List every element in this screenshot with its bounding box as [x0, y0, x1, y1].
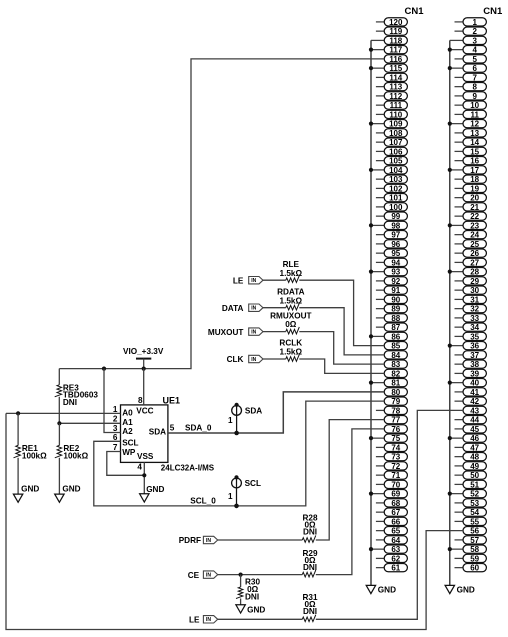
node CN1 pin 22	[455, 212, 487, 221]
node CN1 pin 84	[384, 351, 407, 360]
op-amp UE1 body (EEPROM 24LC32A)	[121, 405, 168, 463]
wire A1 pin 2	[59, 422, 120, 424]
svg-text:IN: IN	[206, 617, 211, 623]
node CN1 pin 115	[369, 64, 408, 73]
svg-text:LE: LE	[233, 276, 244, 285]
node CN1 pin 71	[376, 471, 408, 480]
junction WP/VSS	[142, 473, 146, 477]
svg-text:116: 116	[389, 55, 402, 64]
svg-text:100kΩ: 100kΩ	[63, 452, 88, 461]
svg-text:55: 55	[470, 517, 479, 526]
node CN1 pin 99	[376, 212, 408, 221]
svg-text:106: 106	[389, 147, 403, 156]
node CN1 pin 11	[455, 110, 487, 119]
svg-text:21: 21	[470, 203, 479, 212]
svg-text:51: 51	[470, 480, 479, 489]
svg-text:64: 64	[391, 536, 400, 545]
node CN1 pin 72	[376, 462, 408, 471]
node CN1 pin 41	[455, 388, 487, 397]
svg-text:A2: A2	[122, 427, 133, 436]
svg-text:45: 45	[470, 425, 479, 434]
svg-text:63: 63	[391, 545, 400, 554]
node CN1 pin 35	[455, 332, 487, 341]
node CN1 pin 61	[376, 564, 408, 573]
node CN1 pin 2	[455, 27, 487, 36]
svg-text:44: 44	[470, 416, 479, 425]
svg-text:DNI: DNI	[245, 592, 259, 601]
svg-text:12: 12	[470, 120, 479, 129]
svg-text:SDA_0: SDA_0	[185, 423, 212, 432]
svg-text:CN1: CN1	[405, 6, 425, 17]
svg-text:96: 96	[391, 240, 400, 249]
svg-text:33: 33	[470, 314, 479, 323]
ground symbol UE1 VSS	[140, 485, 165, 502]
svg-text:18: 18	[470, 175, 479, 184]
svg-text:24: 24	[470, 231, 479, 240]
svg-text:7: 7	[113, 443, 118, 452]
node CN1 pin 34	[455, 323, 487, 332]
svg-text:39: 39	[470, 369, 479, 378]
svg-text:DNI: DNI	[303, 563, 317, 572]
wire CN1-right ground bus	[449, 40, 451, 585]
svg-text:CLK: CLK	[227, 355, 244, 364]
svg-text:53: 53	[470, 499, 479, 508]
svg-text:1: 1	[472, 18, 477, 27]
svg-text:CN1: CN1	[483, 6, 503, 17]
node CN1 pin 55	[455, 517, 487, 526]
svg-text:56: 56	[470, 527, 479, 536]
svg-text:20: 20	[470, 194, 479, 203]
node CN1 pin 92	[376, 277, 408, 286]
svg-text:31: 31	[470, 295, 479, 304]
node CN1 pin 77	[384, 416, 407, 425]
svg-text:RDATA: RDATA	[277, 287, 305, 296]
node CN1 pin 5	[455, 55, 487, 64]
svg-text:46: 46	[470, 434, 479, 443]
wire VSS pin 4 to ground	[143, 462, 145, 493]
node CN1 pin 82	[384, 369, 407, 378]
svg-text:28: 28	[470, 268, 479, 277]
node CN1 pin 14	[455, 138, 487, 147]
resistor RCLK	[263, 354, 384, 373]
svg-text:10: 10	[470, 101, 479, 110]
svg-text:IN: IN	[206, 572, 211, 578]
wire A2 pin 3 to VIO	[104, 369, 121, 433]
svg-text:A1: A1	[122, 418, 133, 427]
svg-text:37: 37	[470, 351, 479, 360]
svg-text:8: 8	[472, 83, 477, 92]
node CN1 pin 70	[376, 480, 408, 489]
svg-text:7: 7	[472, 73, 477, 82]
node CN1 pin 101	[376, 194, 408, 203]
svg-text:1: 1	[228, 416, 233, 425]
svg-text:13: 13	[470, 129, 479, 138]
node CN1 pin 120	[376, 18, 408, 27]
svg-text:92: 92	[391, 277, 400, 286]
node CN1 pin 105	[376, 157, 408, 166]
node CN1 pin 76	[384, 425, 407, 434]
svg-text:93: 93	[391, 268, 400, 277]
svg-text:112: 112	[389, 92, 402, 101]
svg-text:DNI: DNI	[303, 527, 317, 536]
node CN1 pin 58	[448, 545, 487, 554]
node CN1 pin 8	[455, 83, 487, 92]
node CN1 pin 102	[376, 184, 408, 193]
svg-text:89: 89	[391, 305, 400, 314]
node CN1 pin 28	[448, 268, 487, 277]
node CN1 pin 65	[376, 527, 408, 536]
node CN1 pin 78	[376, 406, 408, 415]
svg-text:95: 95	[391, 249, 400, 258]
ground symbol below CN1 left column	[366, 585, 396, 594]
node CN1 pin 47	[455, 443, 487, 452]
svg-text:VIO_+3.3V: VIO_+3.3V	[123, 347, 164, 356]
node CN1 pin 96	[376, 240, 408, 249]
svg-text:1.5kΩ: 1.5kΩ	[280, 296, 303, 305]
svg-text:91: 91	[391, 286, 400, 295]
svg-text:4: 4	[472, 46, 477, 55]
svg-text:38: 38	[470, 360, 479, 369]
node CN1 pin 98	[369, 221, 408, 230]
node CN1 pin 94	[376, 258, 408, 267]
svg-text:99: 99	[391, 212, 400, 221]
node CN1 pin 117	[369, 46, 408, 55]
node CN1 pin 48	[455, 453, 487, 462]
svg-text:102: 102	[389, 184, 403, 193]
svg-text:58: 58	[470, 545, 479, 554]
svg-text:GND: GND	[457, 586, 475, 595]
node CN1 pin 59	[455, 554, 487, 563]
svg-text:74: 74	[391, 443, 400, 452]
svg-text:43: 43	[470, 406, 479, 415]
node CN1 pin 111	[376, 101, 408, 110]
svg-text:IN: IN	[251, 278, 256, 284]
node CN1 pin 88	[376, 314, 408, 323]
svg-text:25: 25	[470, 240, 479, 249]
svg-text:14: 14	[470, 138, 479, 147]
svg-text:62: 62	[391, 554, 400, 563]
node CN1 pin 6	[448, 64, 487, 73]
svg-text:47: 47	[470, 443, 479, 452]
ground symbol R30	[236, 605, 265, 615]
svg-text:5: 5	[472, 55, 477, 64]
node CN1 pin 32	[455, 305, 487, 314]
junction A0 / RE1	[16, 411, 20, 415]
svg-text:110: 110	[389, 110, 402, 119]
node CN1 pin 4	[448, 46, 487, 55]
svg-text:42: 42	[470, 397, 479, 406]
svg-text:27: 27	[470, 258, 479, 267]
node CN1 pin 43	[463, 406, 486, 415]
node CN1 pin 53	[455, 499, 487, 508]
node CN1 pin 37	[455, 351, 487, 360]
svg-text:IN: IN	[251, 357, 256, 363]
svg-text:40: 40	[470, 379, 479, 388]
svg-text:34: 34	[470, 323, 479, 332]
node CN1 pin 15	[455, 147, 487, 156]
svg-text:73: 73	[391, 453, 400, 462]
node CN1 pin 100	[376, 203, 408, 212]
node CN1 pin 29	[455, 277, 487, 286]
node CN1 pin 68	[376, 499, 408, 508]
svg-text:61: 61	[391, 564, 400, 573]
svg-text:RCLK: RCLK	[279, 339, 302, 348]
node CN1 pin 69	[369, 490, 408, 499]
svg-text:GND: GND	[247, 606, 265, 615]
svg-text:88: 88	[391, 314, 400, 323]
svg-text:19: 19	[470, 184, 479, 193]
node CN1 pin 89	[376, 305, 408, 314]
svg-text:32: 32	[470, 305, 479, 314]
svg-text:49: 49	[470, 462, 479, 471]
svg-text:17: 17	[470, 166, 479, 175]
node CN1 pin 79	[384, 397, 407, 406]
node CN1 pin 74	[376, 443, 408, 452]
node CN1 pin 44	[455, 416, 487, 425]
svg-text:90: 90	[391, 295, 400, 304]
wire VCC pin 8	[143, 369, 145, 405]
svg-text:0Ω: 0Ω	[285, 320, 297, 329]
node CN1 pin 42	[455, 397, 487, 406]
node CN1 pin 91	[376, 286, 408, 295]
svg-text:PDRF: PDRF	[179, 536, 201, 545]
node CN1 pin 113	[376, 83, 408, 92]
svg-text:35: 35	[470, 332, 479, 341]
svg-text:67: 67	[391, 508, 400, 517]
node CN1 pin 56	[463, 527, 486, 536]
wire WP pin 7 loop to VSS	[107, 452, 145, 476]
svg-text:65: 65	[391, 527, 400, 536]
svg-text:50: 50	[470, 471, 479, 480]
svg-text:29: 29	[470, 277, 479, 286]
svg-text:70: 70	[391, 480, 400, 489]
node CN1 pin 25	[455, 240, 487, 249]
svg-text:86: 86	[391, 332, 400, 341]
svg-text:72: 72	[391, 462, 400, 471]
node CN1 pin 73	[376, 453, 408, 462]
wire SDA_0 from UE1 pin5 to CN1 pin 80	[168, 392, 384, 433]
svg-text:120: 120	[389, 18, 403, 27]
ground symbol RE1	[13, 485, 39, 503]
node CN1 pin 62	[376, 554, 408, 563]
node CN1 pin 9	[455, 92, 487, 101]
svg-text:66: 66	[391, 517, 400, 526]
svg-text:15: 15	[470, 147, 479, 156]
svg-text:113: 113	[389, 83, 402, 92]
svg-text:111: 111	[390, 101, 403, 110]
node CN1 pin 119	[376, 27, 408, 36]
svg-text:81: 81	[391, 379, 400, 388]
node CN1 pin 81	[369, 379, 408, 388]
svg-text:RLE: RLE	[283, 260, 300, 269]
node CN1 pin 85	[384, 342, 407, 351]
resistor RE3 TBD0603 DNI	[55, 369, 62, 424]
node CN1 pin 93	[369, 268, 408, 277]
resistor R30 0R DNI to ground	[236, 575, 243, 605]
node CN1 pin 45	[455, 425, 487, 434]
svg-text:100: 100	[389, 203, 403, 212]
svg-text:85: 85	[391, 342, 400, 351]
resistor R28 0R DNI	[218, 420, 385, 543]
node CN1 pin 17	[448, 166, 487, 175]
svg-text:48: 48	[470, 453, 479, 462]
svg-text:75: 75	[391, 434, 400, 443]
svg-text:84: 84	[391, 351, 400, 360]
node CN1 pin 103	[376, 175, 408, 184]
svg-text:80: 80	[391, 388, 400, 397]
node CN1 pin 36	[448, 342, 487, 351]
node CN1 pin 118	[371, 36, 407, 45]
svg-text:71: 71	[391, 471, 400, 480]
svg-text:119: 119	[389, 27, 402, 36]
node CN1 pin 40	[448, 379, 487, 388]
node CN1 pin 52	[448, 490, 487, 499]
svg-text:3: 3	[472, 36, 477, 45]
svg-text:1: 1	[228, 492, 233, 501]
node CN1 pin 50	[455, 471, 487, 480]
svg-text:GND: GND	[62, 485, 80, 494]
node CN1 pin 23	[448, 221, 487, 230]
svg-text:SCL: SCL	[122, 438, 138, 447]
svg-text:6: 6	[472, 64, 477, 73]
resistor RDATA	[263, 303, 384, 355]
svg-text:115: 115	[389, 64, 402, 73]
svg-text:GND: GND	[21, 485, 39, 494]
wire A0 rail to CN1 pin 56	[6, 413, 463, 629]
svg-text:GND: GND	[146, 485, 164, 494]
svg-text:30: 30	[470, 286, 479, 295]
svg-text:103: 103	[389, 175, 403, 184]
node CN1 pin 60	[455, 564, 487, 573]
node CN1 pin 39	[455, 369, 487, 378]
node CN1 pin 10	[455, 101, 487, 110]
svg-text:DNI: DNI	[303, 607, 317, 616]
svg-text:VSS: VSS	[137, 452, 154, 461]
junction CE / R30	[239, 573, 243, 577]
svg-text:87: 87	[391, 323, 400, 332]
node CN1 pin 13	[455, 129, 487, 138]
node CN1 pin 20	[455, 194, 487, 203]
svg-text:MUXOUT: MUXOUT	[208, 328, 243, 337]
wire CN1-left ground bus	[370, 40, 372, 585]
ground symbol RE2	[55, 485, 81, 503]
node CN1 pin 33	[455, 314, 487, 323]
node CN1 pin 87	[376, 323, 408, 332]
node CN1 pin 95	[376, 249, 408, 258]
svg-text:RMUXOUT: RMUXOUT	[270, 311, 311, 320]
node CN1 pin 1	[455, 18, 487, 27]
node CN1 pin 80	[384, 388, 407, 397]
node CN1 pin 24	[455, 231, 487, 240]
node CN1 pin 90	[376, 295, 408, 304]
svg-text:117: 117	[389, 46, 402, 55]
node CN1 pin 67	[376, 508, 408, 517]
node CN1 pin 66	[376, 517, 408, 526]
node CN1 pin 109	[369, 120, 408, 129]
svg-text:IN: IN	[251, 306, 256, 312]
input port PDRF	[179, 536, 218, 545]
node CN1 pin 112	[376, 92, 408, 101]
svg-text:68: 68	[391, 499, 400, 508]
svg-text:VCC: VCC	[136, 407, 153, 416]
svg-text:105: 105	[389, 157, 403, 166]
svg-text:104: 104	[389, 166, 403, 175]
svg-text:24LC32A-I/MS: 24LC32A-I/MS	[161, 463, 215, 472]
svg-text:54: 54	[470, 508, 479, 517]
node CN1 pin 116	[384, 55, 407, 64]
svg-text:9: 9	[472, 92, 477, 101]
node CN1 pin 31	[455, 295, 487, 304]
svg-text:22: 22	[470, 212, 479, 221]
svg-text:97: 97	[391, 231, 400, 240]
svg-text:114: 114	[389, 73, 402, 82]
node CN1 pin 27	[455, 258, 487, 267]
svg-text:118: 118	[389, 36, 402, 45]
node CN1 pin 107	[376, 138, 408, 147]
input port CE	[188, 571, 218, 580]
svg-text:59: 59	[470, 554, 479, 563]
power flag VIO_+3.3V	[123, 347, 164, 368]
svg-text:16: 16	[470, 157, 479, 166]
svg-text:DNI: DNI	[63, 398, 77, 407]
input port CLK	[227, 355, 263, 364]
svg-text:107: 107	[389, 138, 403, 147]
svg-text:A0: A0	[122, 408, 133, 417]
node CN1 pin 38	[455, 360, 487, 369]
svg-text:IN: IN	[251, 329, 256, 335]
node CN1 pin 21	[455, 203, 487, 212]
wire VIO net to CN1 pin 116	[59, 59, 384, 369]
junction A2 tie to VIO wire	[102, 367, 106, 371]
node CN1 pin 97	[376, 231, 408, 240]
node CN1 pin 46	[448, 434, 487, 443]
svg-text:CE: CE	[188, 571, 200, 580]
node CN1 pin 51	[455, 480, 487, 489]
svg-text:GND: GND	[378, 586, 396, 595]
node CN1 pin 83	[384, 360, 407, 369]
node CN1 pin 7	[455, 73, 487, 82]
wire A0 pin 1 to left rail	[6, 412, 121, 414]
node CN1 pin 57	[455, 536, 487, 545]
svg-text:11: 11	[470, 110, 479, 119]
node CN1 pin 86	[369, 332, 408, 341]
svg-text:5: 5	[170, 424, 175, 433]
node CN1 pin 63	[369, 545, 408, 554]
node CN1 pin 75	[369, 434, 408, 443]
node CN1 pin 108	[376, 129, 408, 138]
wire SCL_0 from UE1 pin6 to CN1 pin 79	[94, 401, 384, 506]
junction VIO supply on top wire	[142, 367, 146, 371]
svg-text:109: 109	[389, 120, 403, 129]
node CN1 pin 19	[455, 184, 487, 193]
junction A1 / RE2 / RE3	[57, 421, 61, 425]
svg-text:76: 76	[391, 425, 400, 434]
node CN1 pin 26	[455, 249, 487, 258]
svg-text:1.5kΩ: 1.5kΩ	[280, 348, 303, 357]
svg-text:52: 52	[470, 490, 479, 499]
svg-text:LE: LE	[189, 616, 200, 625]
svg-text:23: 23	[470, 221, 479, 230]
svg-text:SCL_0: SCL_0	[190, 497, 216, 506]
node CN1 pin 54	[455, 508, 487, 517]
svg-text:60: 60	[470, 564, 479, 573]
node CN1 pin 16	[455, 157, 487, 166]
svg-text:DATA: DATA	[222, 304, 244, 313]
svg-text:100kΩ: 100kΩ	[22, 452, 47, 461]
resistor R29 0R DNI	[218, 429, 385, 577]
svg-text:83: 83	[391, 360, 400, 369]
node CN1 pin 3	[450, 36, 487, 45]
